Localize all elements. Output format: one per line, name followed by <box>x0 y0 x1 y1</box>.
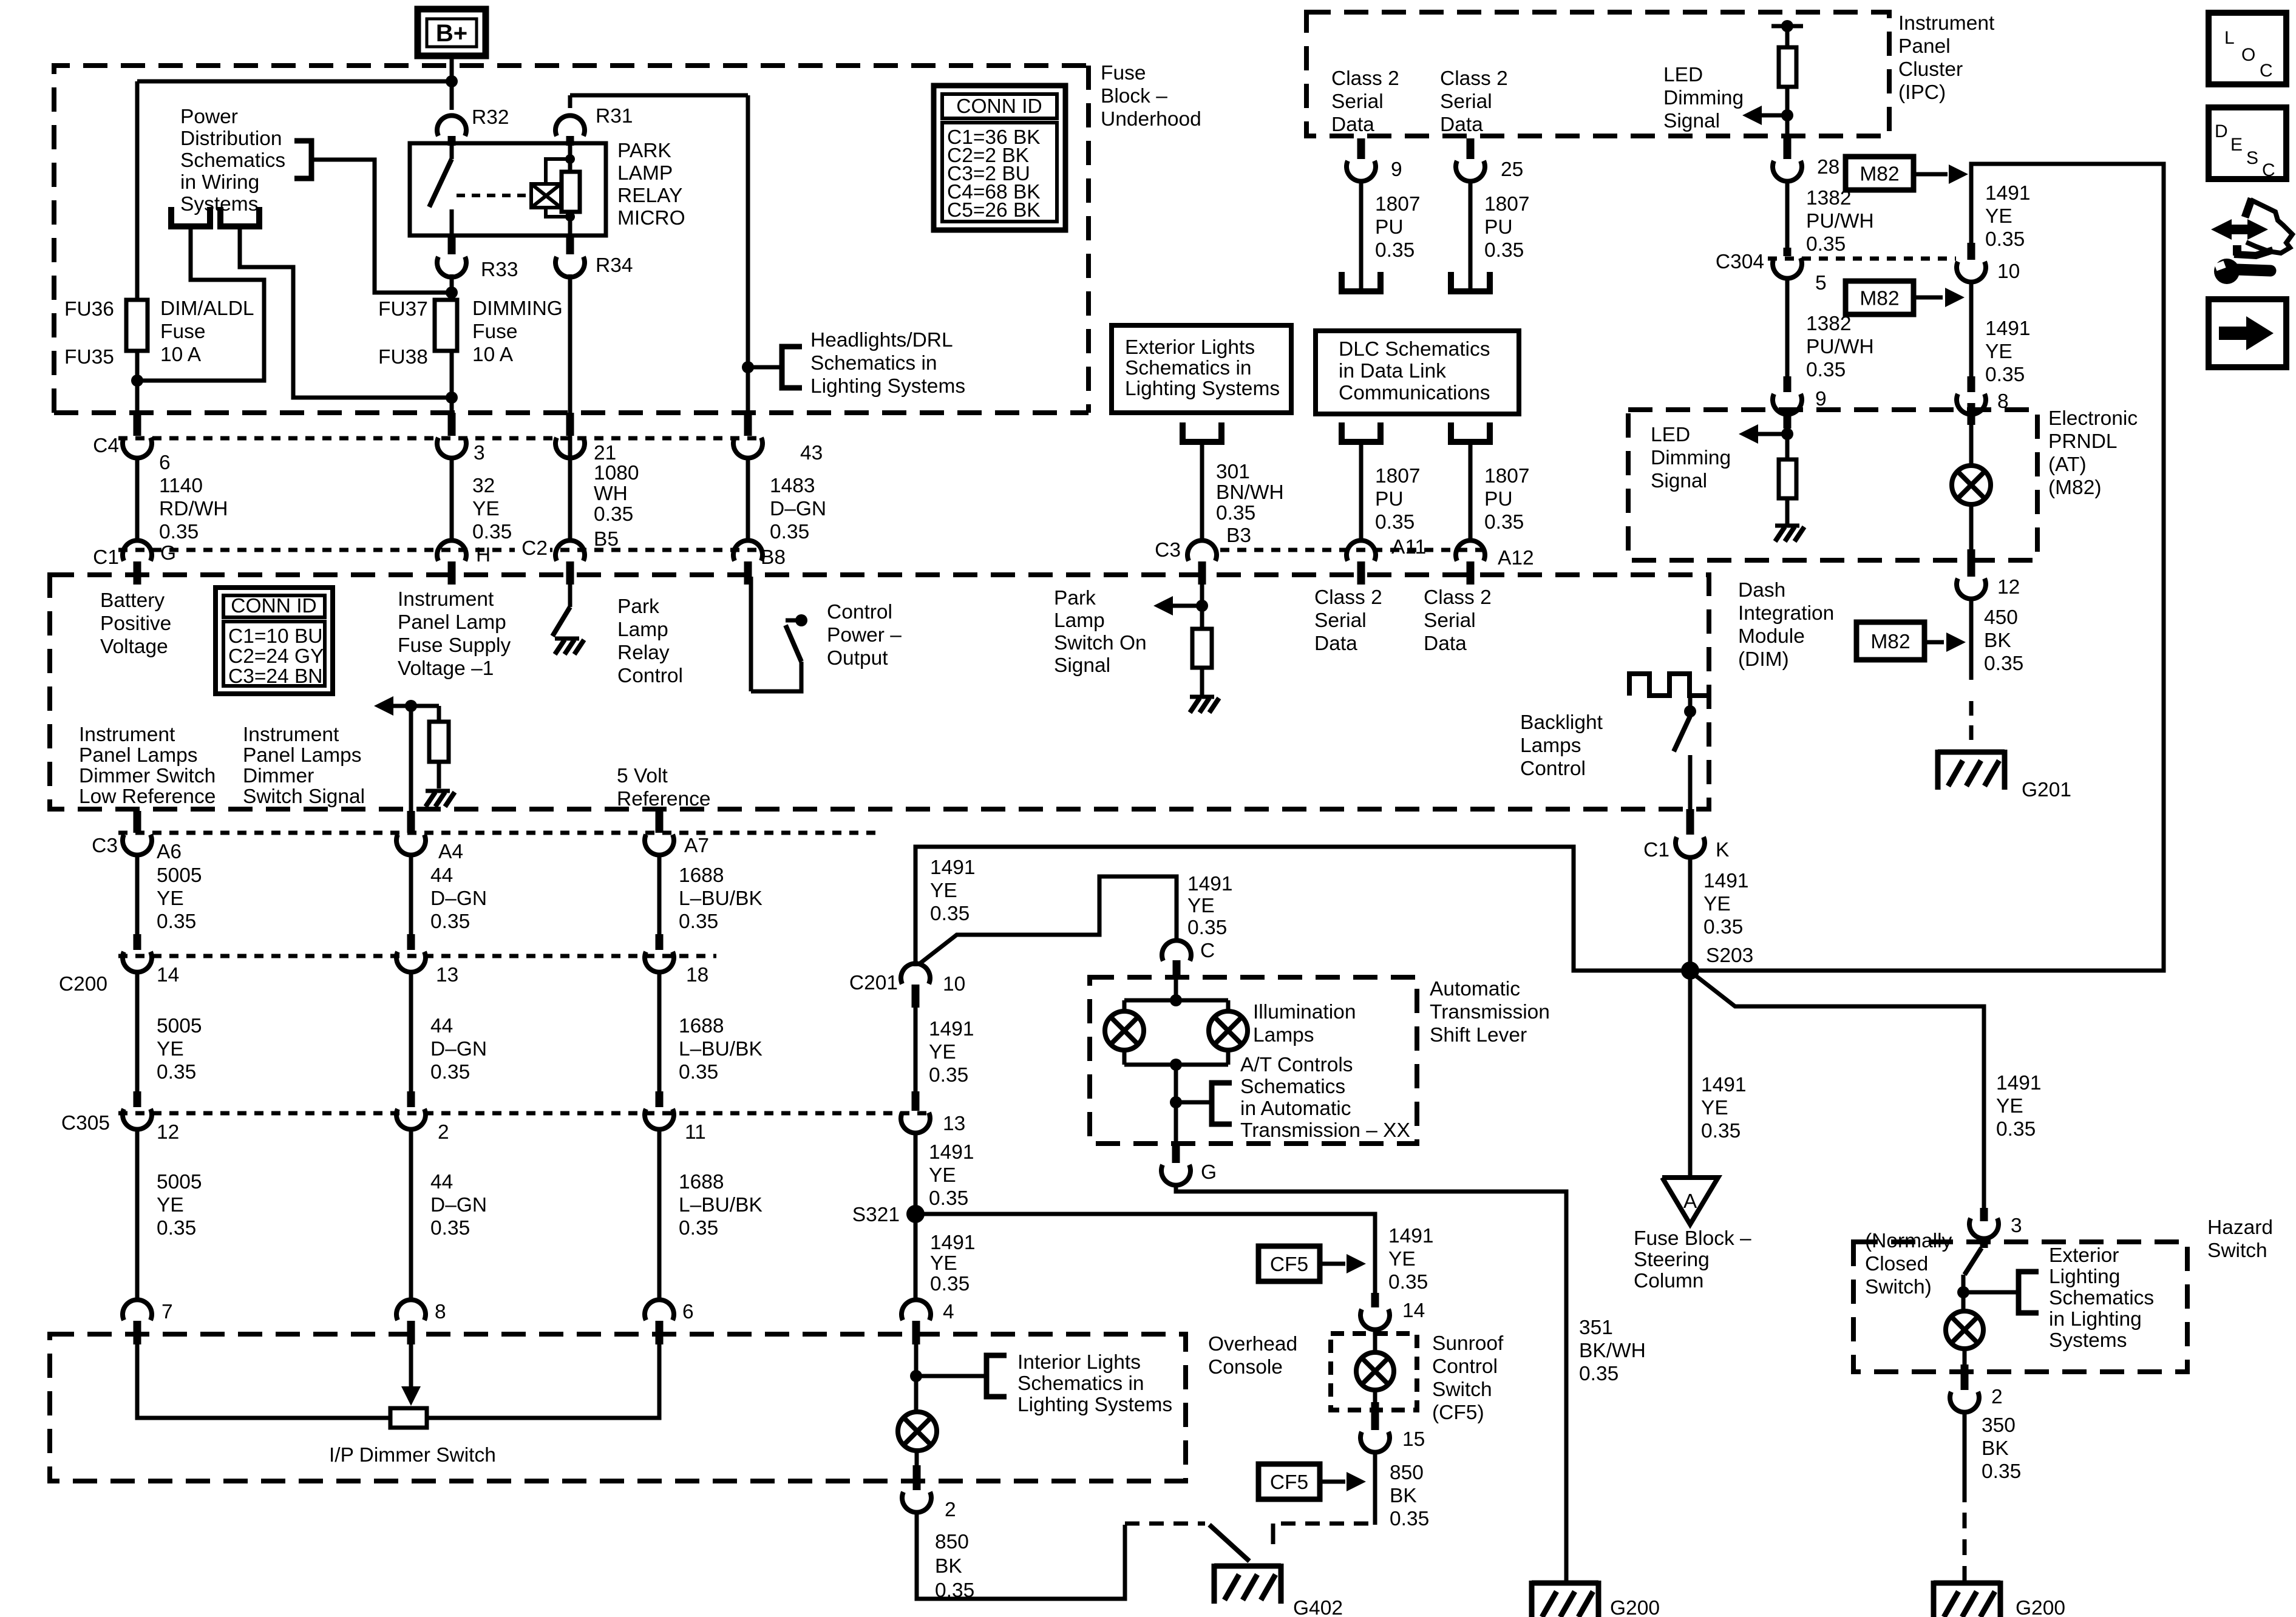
connector R32 <box>437 115 466 146</box>
dotted row C4 <box>118 436 764 441</box>
backlight switch <box>1674 696 1696 751</box>
svg-text:0.35: 0.35 <box>1579 1363 1618 1385</box>
ground G201 <box>1938 750 2005 790</box>
svg-text:(Normally: (Normally <box>1865 1230 1952 1252</box>
label A7 <box>684 835 709 857</box>
arrow box <box>2209 299 2286 367</box>
connector 5 <box>1773 248 1802 279</box>
wire K to S203 <box>1688 856 1693 966</box>
relay K box <box>410 143 606 236</box>
svg-text:D–GN: D–GN <box>430 887 487 910</box>
dotted row B3 A11 A12 <box>1220 548 1486 552</box>
wire S203 diag to hazard <box>1694 974 1984 1209</box>
svg-text:0.35: 0.35 <box>157 1061 196 1083</box>
label FU38 <box>378 346 428 368</box>
label G <box>1201 1161 1217 1184</box>
label 7 <box>161 1301 173 1323</box>
svg-text:Console: Console <box>1208 1356 1283 1378</box>
label 1483 D-GN wire <box>770 475 826 543</box>
relay solenoid X box <box>531 184 561 208</box>
svg-text:Closed: Closed <box>1865 1253 1928 1275</box>
gang fixed stub <box>1271 1524 1275 1544</box>
node FU36 lower junction <box>131 375 143 387</box>
svg-text:Dimmer Switch: Dimmer Switch <box>79 765 216 787</box>
svg-text:Serial: Serial <box>1314 609 1367 632</box>
label A11 <box>1391 536 1426 558</box>
label C3 park <box>1155 539 1181 561</box>
label 5005 a <box>157 864 202 933</box>
label pin B5 <box>590 528 628 551</box>
wire A7 col <box>645 811 674 935</box>
svg-text:0.35: 0.35 <box>1375 511 1415 534</box>
svg-text:R33: R33 <box>481 259 518 281</box>
svg-text:Sunroof: Sunroof <box>1432 1332 1504 1355</box>
svg-text:A12: A12 <box>1498 547 1534 569</box>
svg-text:1491: 1491 <box>930 856 976 879</box>
label R32 <box>472 106 509 129</box>
connector B8 <box>733 540 763 585</box>
wire hazard to G200 <box>1963 1411 1967 1581</box>
svg-text:PU: PU <box>1484 216 1513 239</box>
dotted row C200 <box>118 954 716 958</box>
wire S321 branch <box>915 1214 1375 1297</box>
svg-text:13: 13 <box>436 964 458 986</box>
park lamp arrow <box>1153 596 1202 615</box>
svg-text:C3=24 BN: C3=24 BN <box>228 665 323 688</box>
svg-text:5: 5 <box>1815 272 1827 294</box>
label 1491 YE cf5 <box>1388 1225 1434 1293</box>
connector A12 <box>1456 540 1485 585</box>
svg-text:0.35: 0.35 <box>430 910 470 933</box>
relay coil <box>562 143 580 236</box>
svg-text:D–GN: D–GN <box>430 1194 487 1216</box>
svg-text:G: G <box>1201 1161 1217 1184</box>
label Illumination Lamps <box>1253 1001 1356 1046</box>
wire FU37 down <box>450 351 454 415</box>
svg-text:RELAY: RELAY <box>617 185 682 207</box>
connector 3 hazard <box>1969 1208 1999 1239</box>
wire park lamp inside DIM <box>1200 577 1204 629</box>
svg-text:FU35: FU35 <box>64 346 114 368</box>
svg-text:C1: C1 <box>93 546 119 569</box>
connector 14 <box>1360 1293 1390 1330</box>
svg-text:1491: 1491 <box>1985 182 2031 205</box>
svg-text:G201: G201 <box>2022 779 2071 801</box>
svg-text:R32: R32 <box>472 106 509 129</box>
svg-text:Systems: Systems <box>2049 1329 2127 1352</box>
svg-text:Lighting Systems: Lighting Systems <box>810 375 965 398</box>
svg-text:Integration: Integration <box>1738 602 1834 625</box>
svg-text:PU: PU <box>1375 488 1404 510</box>
ground G200 mid <box>1532 1581 1598 1617</box>
svg-text:E: E <box>2230 135 2243 155</box>
label 5005 c <box>157 1171 202 1239</box>
dash integration module box <box>50 575 1709 809</box>
svg-text:G200: G200 <box>2016 1597 2065 1617</box>
svg-text:L: L <box>2224 28 2235 48</box>
B+ terminal box <box>418 9 486 56</box>
svg-text:PARK: PARK <box>617 140 671 162</box>
label 1491 YE c-wire <box>1187 873 1233 939</box>
svg-text:CF5: CF5 <box>1270 1253 1308 1276</box>
svg-text:Schematics: Schematics <box>180 149 285 172</box>
svg-text:Instrument: Instrument <box>398 588 494 611</box>
offpage cup class2 b <box>1451 272 1490 291</box>
svg-text:850: 850 <box>1390 1462 1424 1484</box>
label 28 <box>1817 156 1839 178</box>
label 15 <box>1402 1428 1425 1451</box>
svg-text:C304: C304 <box>1716 251 1764 273</box>
node headlights junction <box>742 361 754 373</box>
wire lamp to 2 <box>913 1451 921 1490</box>
bracket power distribution <box>294 141 311 178</box>
svg-text:Module: Module <box>1738 625 1805 648</box>
svg-text:L–BU/BK: L–BU/BK <box>679 887 763 910</box>
wire to headlights bracket <box>748 365 782 370</box>
label 9 dim <box>1815 388 1827 410</box>
label G201 <box>2022 779 2071 801</box>
wire class2 a <box>1359 180 1364 291</box>
ref CF5 1 <box>1258 1246 1366 1281</box>
svg-text:C1: C1 <box>1643 839 1669 861</box>
svg-text:BN/WH: BN/WH <box>1216 481 1284 504</box>
svg-text:8: 8 <box>435 1301 446 1323</box>
svg-text:Switch): Switch) <box>1865 1276 1932 1298</box>
svg-text:Signal: Signal <box>1651 470 1707 492</box>
svg-text:C200: C200 <box>59 973 107 995</box>
ground under park lamp resistor <box>1190 697 1219 713</box>
svg-text:10 A: 10 A <box>472 344 514 366</box>
label C201 <box>849 972 898 994</box>
ref CF5 2 <box>1258 1464 1366 1499</box>
label 350 BK <box>1982 1414 2021 1483</box>
svg-text:CONN ID: CONN ID <box>231 595 316 617</box>
svg-text:0.35: 0.35 <box>929 1064 968 1086</box>
wire 10 to 8 <box>1969 280 1974 378</box>
svg-text:A/T Controls: A/T Controls <box>1240 1054 1353 1076</box>
svg-text:0.35: 0.35 <box>1996 1118 2036 1141</box>
svg-text:C3: C3 <box>1155 539 1181 561</box>
svg-text:0.35: 0.35 <box>1703 916 1743 938</box>
svg-text:Instrument: Instrument <box>1898 12 1995 35</box>
svg-text:Control: Control <box>617 665 683 687</box>
ip dimmer resistor <box>390 1408 427 1428</box>
label Power Distribution Schematics in Wiring Systems <box>180 106 285 215</box>
label 1491 YE s321b <box>930 1232 976 1295</box>
svg-text:Switch Signal: Switch Signal <box>243 785 365 808</box>
svg-text:5005: 5005 <box>157 1171 202 1193</box>
label 44 a <box>430 864 487 933</box>
svg-text:FU36: FU36 <box>64 298 114 320</box>
svg-text:0.35: 0.35 <box>679 1217 718 1239</box>
svg-text:BK: BK <box>1390 1485 1417 1507</box>
label 6 <box>682 1301 694 1323</box>
connector R33 <box>437 237 466 277</box>
label A12 <box>1498 547 1534 569</box>
label Park Lamp Switch On Signal <box>1054 587 1147 677</box>
label AT Controls Schematics <box>1240 1054 1410 1142</box>
wire prndl lamp down <box>1968 504 1975 574</box>
svg-text:K: K <box>1716 839 1729 861</box>
svg-text:0.35: 0.35 <box>1484 239 1524 262</box>
svg-text:Lighting Systems: Lighting Systems <box>1125 378 1280 400</box>
connector 28 <box>1773 136 1802 181</box>
svg-text:Lamps: Lamps <box>1520 734 1581 757</box>
connector C3 park lamp <box>1187 540 1217 585</box>
dotted row C304 <box>1768 257 1956 261</box>
label Class 2 Serial Data ipc a <box>1331 67 1399 136</box>
label DIMMING fuse <box>472 297 563 366</box>
svg-text:LED: LED <box>1651 424 1690 446</box>
label 10 right <box>1997 260 2020 283</box>
bracket interior lights <box>916 1355 1007 1397</box>
svg-text:3: 3 <box>2011 1215 2022 1237</box>
label PARK LAMP RELAY MICRO <box>617 140 685 229</box>
svg-text:Transmission: Transmission <box>1430 1001 1550 1023</box>
label 1688 c <box>679 1171 763 1239</box>
illumination lamp 2 <box>1209 1011 1248 1050</box>
svg-text:Dimming: Dimming <box>1651 447 1731 469</box>
wire 3 to H <box>450 456 454 541</box>
svg-text:0.35: 0.35 <box>157 1217 196 1239</box>
node B+ junction <box>446 75 458 87</box>
sunroof lamp <box>1356 1352 1394 1390</box>
svg-text:CF5: CF5 <box>1270 1471 1308 1494</box>
svg-text:1491: 1491 <box>1388 1225 1434 1247</box>
label C1 <box>93 546 119 569</box>
ipc led arrow <box>1742 106 1787 125</box>
svg-text:RD/WH: RD/WH <box>159 498 228 520</box>
svg-text:Instrument: Instrument <box>243 724 339 746</box>
svg-text:44: 44 <box>430 864 453 887</box>
label C305 <box>61 1112 110 1134</box>
svg-text:0.35: 0.35 <box>157 910 196 933</box>
label pin B3 <box>1226 524 1251 547</box>
svg-text:Panel Lamps: Panel Lamps <box>79 744 198 767</box>
label Hazard Switch <box>2207 1216 2273 1262</box>
svg-text:Interior Lights: Interior Lights <box>1017 1351 1141 1374</box>
svg-text:4: 4 <box>943 1301 954 1323</box>
fuse FU37 <box>435 300 457 351</box>
svg-text:YE: YE <box>929 1041 956 1063</box>
connector 11 c305 <box>645 1091 674 1301</box>
svg-text:C2: C2 <box>521 537 548 560</box>
svg-text:Schematics in: Schematics in <box>810 352 937 375</box>
connector 15 <box>1360 1432 1390 1453</box>
label 1080 WH wire <box>594 462 639 526</box>
svg-text:Control: Control <box>1432 1355 1498 1378</box>
wire 12 down <box>1969 597 1974 680</box>
svg-text:14: 14 <box>157 964 179 986</box>
svg-text:Signal: Signal <box>1054 654 1110 677</box>
svg-text:1491: 1491 <box>1985 317 2031 340</box>
bracket at controls <box>1176 1083 1232 1124</box>
bracket exterior lighting <box>1963 1272 2039 1313</box>
svg-text:D–GN: D–GN <box>430 1038 487 1060</box>
svg-text:A11: A11 <box>1391 536 1426 558</box>
svg-text:(AT): (AT) <box>2048 453 2087 476</box>
label R34 <box>596 254 633 277</box>
label DLC Schematics <box>1339 338 1490 404</box>
interior lamp <box>898 1412 937 1451</box>
label Instrument Panel Lamps Dimmer Switch Low Reference <box>79 724 216 808</box>
svg-text:Fuse: Fuse <box>472 320 517 343</box>
svg-text:in Lighting: in Lighting <box>2049 1308 2142 1331</box>
svg-text:YE: YE <box>1985 205 2012 228</box>
label C1 K <box>1643 839 1729 861</box>
wire 4 to lamp <box>914 1344 919 1412</box>
node ipc led junction <box>1781 109 1793 121</box>
svg-text:Exterior: Exterior <box>2049 1244 2119 1267</box>
label 43 <box>800 442 823 464</box>
svg-text:L–BU/BK: L–BU/BK <box>679 1194 763 1216</box>
svg-text:YE: YE <box>157 1194 184 1216</box>
svg-text:L–BU/BK: L–BU/BK <box>679 1038 763 1060</box>
connector H <box>437 540 466 585</box>
svg-text:YE: YE <box>930 880 957 902</box>
svg-text:Dash: Dash <box>1738 579 1785 602</box>
park lamp relay control switch <box>552 585 570 636</box>
svg-text:M82: M82 <box>1870 631 1910 653</box>
wire R33 to FU37 <box>450 274 454 300</box>
label S203 <box>1706 944 1753 967</box>
svg-text:Switch: Switch <box>2207 1239 2267 1262</box>
svg-text:Dimming: Dimming <box>1663 87 1744 109</box>
connector 13 c201 <box>901 1091 930 1133</box>
svg-text:YE: YE <box>472 498 500 520</box>
svg-text:43: 43 <box>800 442 823 464</box>
svg-text:0.35: 0.35 <box>159 521 199 543</box>
label Sunroof Control Switch <box>1432 1332 1504 1424</box>
svg-text:1807: 1807 <box>1484 193 1530 215</box>
label Instrument Panel Cluster <box>1898 12 1995 104</box>
wire 43 to B8 <box>746 456 750 541</box>
svg-text:28: 28 <box>1817 156 1839 178</box>
svg-text:9: 9 <box>1391 158 1402 181</box>
svg-text:1688: 1688 <box>679 864 724 887</box>
svg-text:25: 25 <box>1501 158 1523 181</box>
svg-text:B8: B8 <box>761 546 786 569</box>
svg-text:2: 2 <box>438 1121 449 1144</box>
svg-text:YE: YE <box>157 1038 184 1060</box>
wire class2 b <box>1469 180 1473 291</box>
svg-text:5005: 5005 <box>157 864 202 887</box>
node prndl junction <box>1781 428 1793 440</box>
label 1491 YE top <box>930 856 976 925</box>
node interior lights junction <box>910 1370 922 1382</box>
label R31 <box>596 105 633 127</box>
label 1491 YE s321a <box>929 1141 974 1210</box>
fuse FU36 <box>126 300 148 351</box>
svg-text:Fuse: Fuse <box>160 320 205 343</box>
svg-text:6: 6 <box>682 1301 694 1323</box>
svg-text:1491: 1491 <box>1187 873 1233 895</box>
svg-text:0.35: 0.35 <box>1388 1271 1428 1293</box>
svg-text:Panel: Panel <box>1898 35 1951 58</box>
svg-text:M82: M82 <box>1860 163 1899 186</box>
svg-text:1491: 1491 <box>1996 1072 2042 1094</box>
svg-text:Lamps: Lamps <box>1253 1024 1314 1046</box>
svg-text:Control: Control <box>1520 758 1586 780</box>
svg-text:(DIM): (DIM) <box>1738 648 1789 671</box>
svg-text:PU: PU <box>1375 216 1404 239</box>
svg-text:0.35: 0.35 <box>594 503 633 526</box>
label C at shift <box>1200 940 1215 962</box>
label Fuse Block - Underhood <box>1101 62 1201 131</box>
label C304 <box>1716 251 1764 273</box>
relay solenoid taps <box>546 154 575 222</box>
connector 25 IPC <box>1456 138 1485 181</box>
wire C201 to 13 <box>914 1006 918 1093</box>
connector 18 c200 <box>645 934 674 1093</box>
connector C at shift <box>1162 940 1191 978</box>
svg-text:Positive: Positive <box>100 612 171 635</box>
conn id table 1 <box>934 86 1065 230</box>
ground G200 hazard <box>1934 1581 2000 1617</box>
svg-text:0.35: 0.35 <box>1701 1120 1741 1142</box>
svg-text:15: 15 <box>1402 1428 1425 1451</box>
svg-text:Exterior Lights: Exterior Lights <box>1125 336 1255 359</box>
svg-text:1483: 1483 <box>770 475 815 497</box>
label 44 b <box>430 1015 487 1083</box>
label IP Dimmer Switch <box>329 1444 496 1466</box>
svg-text:Lamp: Lamp <box>1054 609 1105 632</box>
svg-text:S203: S203 <box>1706 944 1753 967</box>
connector 8 mid <box>396 1300 426 1344</box>
svg-text:0.35: 0.35 <box>1984 653 2023 675</box>
label 5 Volt Reference <box>617 765 711 810</box>
svg-text:1491: 1491 <box>930 1232 976 1254</box>
svg-text:0.35: 0.35 <box>1985 228 2025 251</box>
svg-text:C201: C201 <box>849 972 898 994</box>
svg-text:44: 44 <box>430 1015 453 1037</box>
label DIM/ALDL fuse <box>160 297 254 366</box>
label 1382 PU/WH a <box>1806 187 1874 256</box>
LOC box <box>2209 13 2286 84</box>
dimmer signal arrow <box>374 696 439 716</box>
wire cup to A11 <box>1359 442 1364 541</box>
label Overhead Console <box>1208 1333 1297 1378</box>
label 8 mid <box>435 1301 446 1323</box>
wire 6 to resistor <box>429 1343 659 1418</box>
service icon <box>2211 198 2292 284</box>
svg-text:YE: YE <box>930 1252 957 1275</box>
label Headlights/DRL <box>810 329 965 398</box>
svg-text:Steering: Steering <box>1634 1249 1710 1271</box>
node R33-bracket junction <box>446 286 458 299</box>
svg-text:Class 2: Class 2 <box>1314 586 1382 609</box>
svg-text:Output: Output <box>827 647 888 670</box>
label 1491 YE c201 <box>929 1018 974 1086</box>
svg-text:YE: YE <box>1985 341 2012 363</box>
svg-text:D: D <box>2215 121 2228 141</box>
wire S203 down <box>1688 975 1693 1175</box>
label 18 c200 <box>686 964 708 986</box>
svg-text:10 A: 10 A <box>160 344 202 366</box>
label 3 <box>474 442 485 464</box>
svg-text:5 Volt: 5 Volt <box>617 765 668 787</box>
at lamp rail bottom <box>1124 1050 1228 1144</box>
svg-text:0.35: 0.35 <box>1806 233 1846 256</box>
svg-text:Block –: Block – <box>1101 85 1167 107</box>
ref M82 1 <box>1846 157 1968 190</box>
svg-text:Park: Park <box>1054 587 1096 609</box>
ref M82 2 <box>1846 281 1965 314</box>
svg-text:0.35: 0.35 <box>679 910 718 933</box>
label 850 BK int <box>935 1531 974 1602</box>
label Interior Lights Schematics <box>1017 1351 1172 1416</box>
svg-text:B+: B+ <box>436 20 467 47</box>
